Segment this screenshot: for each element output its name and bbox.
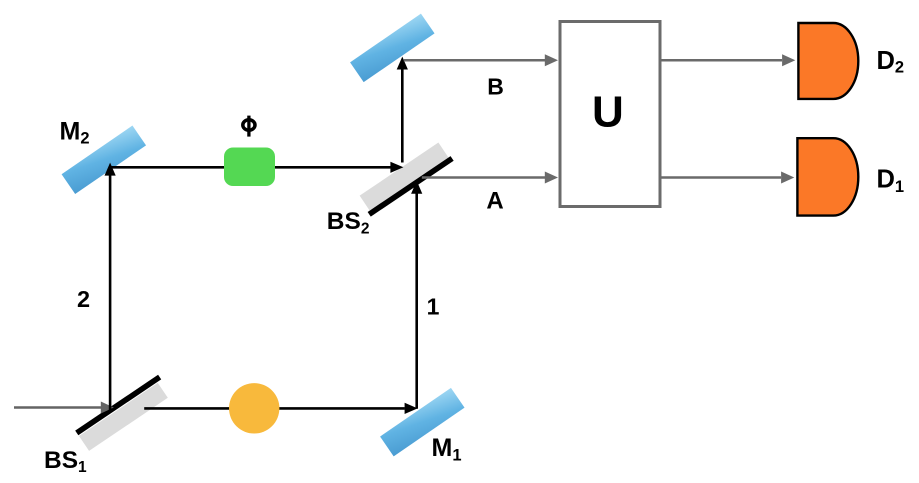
svg-text:B: B (487, 74, 504, 100)
wire: beam M2 to BS2 through phase shifter (110, 166, 391, 169)
wire: path 2 vertical (BS1 up to M2) (109, 175, 112, 410)
wire: path 1 vertical (M1 up to BS2) (415, 194, 418, 409)
wire: output B beam (top mirror to U) (404, 59, 545, 62)
wire: U to detector D1 (662, 176, 782, 179)
wire: U to detector D2 (662, 59, 783, 62)
wire: output A beam (BS2 to U) (422, 176, 545, 179)
svg-text:A: A (486, 187, 503, 214)
beam splitter BS2 (grey slab) (360, 143, 449, 211)
beam splitter BS1 (black splitting line) (77, 377, 160, 433)
beam splitter BS2 (black splitting line) (369, 158, 452, 214)
mirror M1 (380, 388, 464, 456)
top mirror (350, 14, 434, 82)
wire: bottom beam BS1 to M1 through sample (144, 407, 405, 410)
phase shifter box (phi) (224, 148, 275, 187)
mirror M2 (62, 126, 146, 194)
detector D2 (798, 23, 858, 99)
box U (unitary) (560, 22, 660, 207)
wire: beam BS2 up to top mirror (401, 69, 404, 163)
sample (orange circle) (229, 383, 279, 433)
svg-text:U: U (592, 88, 624, 137)
detector D1 (797, 138, 858, 215)
wire: input beam into BS1 (14, 406, 102, 409)
svg-text:2: 2 (77, 286, 90, 312)
beam splitter BS1 (grey slab) (79, 383, 168, 451)
label phi (drawn: ellipse + stem) (243, 116, 255, 137)
svg-text:1: 1 (427, 294, 440, 320)
